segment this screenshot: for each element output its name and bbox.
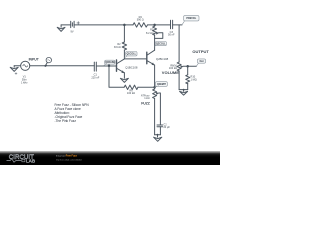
- svg-text:Q1BC108: Q1BC108: [125, 65, 138, 69]
- svg-text:Q1COLL: Q1COLL: [126, 53, 136, 56]
- svg-text:FUZZ: FUZZ: [141, 101, 150, 105]
- svg-text:R5: R5: [150, 27, 154, 31]
- svg-text:LAB: LAB: [26, 159, 35, 164]
- svg-text:20 µF: 20 µF: [163, 125, 170, 129]
- svg-text:Q1BASE: Q1BASE: [105, 61, 115, 64]
- svg-text:VOLUME: VOLUME: [162, 70, 179, 75]
- svg-text:-The Pink Fuzz: -The Pink Fuzz: [55, 119, 77, 123]
- svg-text:1 kΩ: 1 kΩ: [144, 96, 149, 100]
- svg-text:Out: Out: [199, 60, 203, 63]
- svg-text:PREVOL: PREVOL: [186, 17, 196, 20]
- svg-text:100 kΩ: 100 kΩ: [127, 91, 135, 95]
- svg-text:Q2COLL: Q2COLL: [156, 43, 166, 46]
- svg-text:50 nF: 50 nF: [168, 33, 175, 37]
- svg-text:8.2 kΩ: 8.2 kΩ: [146, 31, 154, 35]
- svg-text:http://circuitlab.com/c/44dbd: http://circuitlab.com/c/44dbd: [56, 159, 82, 162]
- svg-text:9V: 9V: [70, 29, 73, 33]
- svg-text:OUTPUT: OUTPUT: [192, 49, 209, 54]
- svg-text:Free Fuzz: Free Fuzz: [66, 155, 78, 158]
- svg-text:1 kHz: 1 kHz: [21, 81, 28, 85]
- svg-text:390 Ω: 390 Ω: [137, 18, 144, 22]
- svg-text:INPUT: INPUT: [29, 58, 40, 62]
- svg-text:Q2BC108: Q2BC108: [156, 57, 169, 61]
- svg-text:1 MΩ: 1 MΩ: [191, 77, 197, 81]
- svg-text:Q2EMIT: Q2EMIT: [157, 83, 166, 86]
- svg-text:33 kΩ: 33 kΩ: [114, 45, 121, 49]
- svg-text:220 nF: 220 nF: [91, 75, 99, 79]
